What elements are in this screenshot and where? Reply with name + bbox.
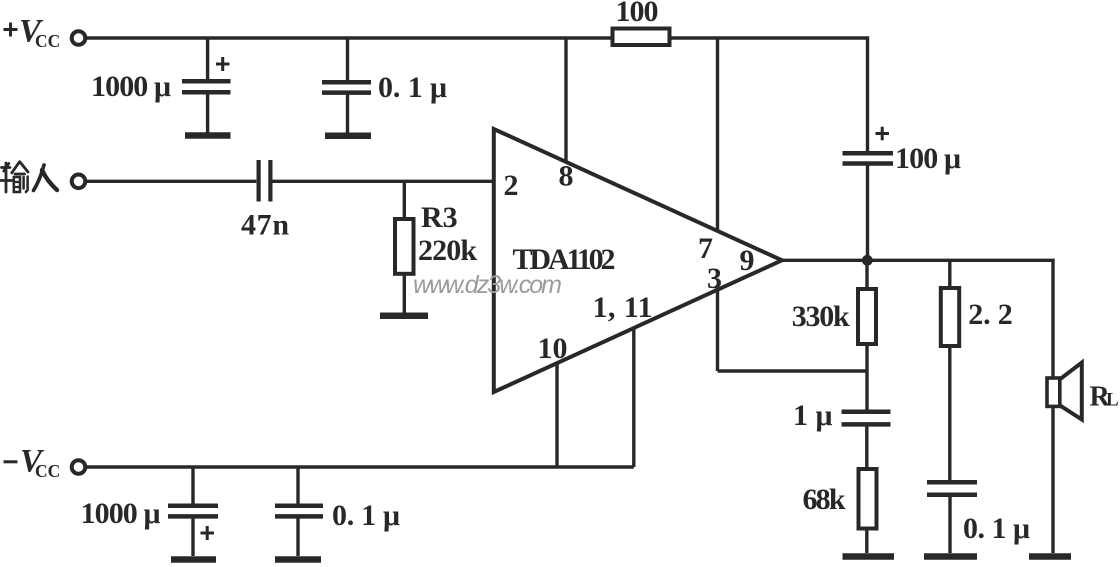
svg-text:9: 9	[740, 244, 755, 277]
svg-text:R3: R3	[421, 201, 458, 234]
resistor R3	[395, 219, 414, 274]
polarity + (bottom 1000u)	[201, 526, 215, 540]
wire: C5 to 68k	[865, 427, 868, 470]
capacitor C2 0.1u (top)	[322, 38, 371, 133]
ground (right 0.1u)	[924, 553, 977, 560]
resistor 2.2	[941, 288, 959, 346]
resistor 330k	[858, 289, 876, 344]
wire: pin 8 from top rail	[564, 38, 567, 164]
junction dot (output node)	[862, 255, 873, 266]
svg-text:CC: CC	[35, 31, 60, 51]
svg-text:2: 2	[504, 169, 519, 202]
resistor 68k	[859, 469, 877, 529]
svg-text:1, 11: 1, 11	[593, 291, 653, 324]
-Vcc terminal	[72, 460, 86, 474]
ground (R3)	[380, 313, 428, 320]
capacitor C7 1000u (bottom)	[168, 467, 218, 556]
wire: output line from pin 9 to speaker corner	[779, 260, 1053, 378]
svg-text:1 μ: 1 μ	[793, 399, 833, 432]
ground (top 0.1u)	[325, 133, 371, 140]
capacitor C4 100u	[843, 153, 894, 260]
op-amp U1 TDA1102	[494, 129, 782, 392]
wire: C3 to op-amp pin 2	[273, 180, 494, 183]
+Vcc label	[4, 14, 61, 52]
svg-text:0. 1 μ: 0. 1 μ	[963, 512, 1030, 545]
svg-text:47n: 47n	[241, 209, 289, 242]
wire: 2.2 branch stub	[948, 260, 951, 288]
svg-text:0. 1 μ: 0. 1 μ	[378, 71, 447, 104]
wire: R3 stub from input line	[403, 181, 406, 219]
svg-text:100: 100	[616, 0, 659, 28]
wire: speaker to ground	[1051, 407, 1054, 554]
wire: pin 10 to -Vcc rail	[555, 363, 558, 467]
wire: 330k through feedback node to C5	[865, 344, 868, 410]
svg-text:L: L	[1106, 390, 1119, 411]
resistor 100 (top rail)	[613, 29, 670, 46]
svg-text:330k: 330k	[792, 300, 850, 333]
wire: 2.2 to C6	[948, 346, 951, 481]
load label RL	[1090, 382, 1119, 413]
input label (shuru)	[1, 162, 57, 192]
svg-text:3: 3	[707, 262, 722, 295]
svg-text:0. 1 μ: 0. 1 μ	[332, 499, 400, 532]
capacitor C5 1u	[842, 412, 891, 425]
wire: +Vcc top rail with right corner drop	[87, 38, 868, 151]
capacitor C8 0.1u (bottom)	[275, 467, 323, 556]
wire: -Vcc bottom rail	[87, 465, 634, 468]
input terminal	[72, 175, 86, 189]
wire: pin 3 to feedback node	[716, 290, 719, 371]
svg-text:www.dz3w.com: www.dz3w.com	[413, 271, 562, 299]
capacitor C1 1000u (top)	[182, 38, 231, 133]
svg-text:220k: 220k	[418, 234, 477, 267]
wire: feedback line to 330k/1u node	[718, 369, 868, 372]
wire: R3 to ground	[403, 274, 406, 313]
svg-text:10: 10	[538, 332, 568, 365]
ground (68k)	[843, 553, 895, 560]
svg-text:100 μ: 100 μ	[895, 142, 961, 175]
svg-text:7: 7	[698, 232, 713, 265]
wire: input to C3	[87, 180, 256, 183]
svg-text:1000 μ: 1000 μ	[91, 70, 171, 103]
polarity + (100u)	[876, 127, 890, 140]
wire: C6 to ground	[948, 497, 951, 554]
svg-text:68k: 68k	[803, 483, 846, 516]
svg-text:2. 2: 2. 2	[968, 298, 1013, 331]
wire: pin 1,11 to -Vcc rail	[632, 328, 635, 467]
capacitor C6 0.1u (right)	[927, 482, 977, 495]
svg-text:CC: CC	[35, 461, 60, 481]
+Vcc terminal	[72, 31, 86, 45]
wire: 68k to ground	[865, 529, 868, 554]
ground (top 1000u)	[185, 132, 231, 139]
ground (bottom 0.1u)	[275, 556, 321, 563]
wire: pin 7 from top rail	[716, 38, 719, 233]
capacitor C3 47n	[259, 160, 271, 202]
svg-text:8: 8	[559, 160, 574, 193]
polarity + (top 1000u)	[216, 57, 230, 71]
ground (speaker)	[1029, 553, 1071, 560]
svg-text:1000 μ: 1000 μ	[81, 497, 161, 530]
ground (bottom 1000u)	[171, 556, 216, 563]
-Vcc label	[4, 444, 61, 482]
wire: output node to 330k	[865, 260, 868, 289]
speaker RL	[1047, 363, 1082, 420]
